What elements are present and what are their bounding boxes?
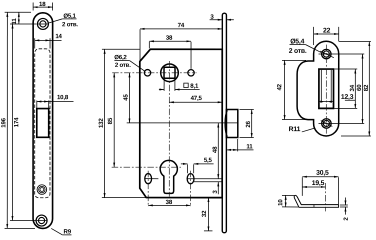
dim 18 — [32, 2, 34, 10]
latch window — [37, 109, 49, 138]
svg-text:5,5: 5,5 — [204, 157, 213, 164]
dim 2 thickness — [340, 204, 348, 206]
dim 132 — [102, 48, 140, 50]
square follower 8.1 — [164, 67, 175, 78]
faceplate plate outline — [33, 13, 53, 229]
dim 11 latch — [237, 139, 239, 151]
svg-text:R9: R9 — [64, 229, 72, 236]
dim 38 bottom — [148, 204, 190, 206]
svg-text:18: 18 — [39, 1, 46, 8]
dim 47,5 — [169, 101, 222, 103]
screw hole bottom — [322, 119, 331, 128]
svg-text:10,8: 10,8 — [57, 94, 69, 101]
dim 38 top — [148, 42, 150, 49]
strike side profile — [294, 195, 338, 207]
svg-text:34: 34 — [349, 84, 356, 91]
dim 48 — [145, 178, 159, 180]
svg-text:42: 42 — [276, 83, 283, 90]
dim 10,8 — [37, 101, 49, 103]
dim 3 faceplate thickness — [210, 19, 223, 21]
svg-text:Ø6,2: Ø6,2 — [114, 54, 127, 61]
hole D6.2 left — [144, 70, 150, 76]
svg-text:196: 196 — [0, 117, 7, 127]
spindle hub — [161, 64, 179, 82]
ext line bottom hole axis — [318, 122, 364, 124]
svg-text:R11: R11 — [289, 126, 301, 133]
ext line top hole axis — [319, 53, 365, 55]
svg-text:14: 14 — [55, 33, 62, 40]
center line cylinder horizontal — [112, 166, 181, 168]
svg-text:2 отв.: 2 отв. — [115, 62, 131, 69]
dim 196 — [5, 11, 31, 13]
dim 34 — [335, 68, 358, 70]
svg-text:12,3: 12,3 — [341, 94, 354, 101]
center line left oval vertical — [147, 171, 149, 207]
svg-text:60: 60 — [356, 84, 363, 91]
inner stop line with arrows — [320, 70, 322, 102]
dim 174 — [10, 23, 36, 25]
svg-text:174: 174 — [13, 117, 20, 127]
lock body outline — [140, 49, 222, 197]
center line spindle horizontal — [112, 72, 196, 74]
svg-text:132: 132 — [98, 118, 105, 128]
svg-text:2 отв.: 2 отв. — [62, 21, 78, 28]
dim 32 — [204, 230, 212, 232]
svg-text:38: 38 — [166, 199, 173, 206]
center line — [325, 45, 327, 134]
latch bolt — [226, 110, 237, 138]
label R9 — [51, 228, 62, 234]
center line right oval vertical — [190, 171, 192, 207]
svg-text:47,5: 47,5 — [191, 95, 203, 102]
dim 11 — [18, 12, 20, 24]
oval screw slot right — [187, 174, 194, 184]
svg-text:74: 74 — [178, 22, 185, 29]
dim 30,5 — [337, 177, 339, 204]
svg-text:22: 22 — [323, 27, 331, 34]
dim 5,5 — [186, 164, 188, 173]
svg-text:48: 48 — [212, 146, 219, 153]
dim 10 lip height — [282, 194, 294, 196]
dim 85 — [113, 73, 115, 167]
svg-text:26: 26 — [245, 120, 252, 127]
svg-text:11: 11 — [11, 18, 18, 25]
seam tick — [313, 205, 315, 207]
oval screw slot left — [145, 174, 152, 184]
svg-text:82: 82 — [363, 84, 370, 91]
fixing hole — [37, 185, 47, 195]
dim 60 — [361, 54, 363, 123]
svg-text:85: 85 — [107, 117, 114, 124]
screw hole top — [322, 49, 331, 58]
latch window — [319, 69, 334, 108]
screw hole bottom — [36, 215, 47, 226]
dim 45 — [127, 122, 238, 124]
svg-text:32: 32 — [201, 210, 208, 217]
strike plate outline with lip — [297, 41, 339, 136]
euro cylinder hole — [160, 160, 177, 193]
dim square 8,1 — [163, 79, 165, 91]
profile center line — [324, 183, 326, 211]
faceplate edge-on bar — [222, 13, 226, 233]
svg-text:11: 11 — [246, 143, 253, 150]
dim 26 — [240, 109, 254, 111]
dim 19,5 — [302, 186, 325, 188]
hidden lock-body outline (dashed) — [35, 49, 50, 198]
svg-text:2 отв.: 2 отв. — [289, 48, 307, 55]
hole D6.2 right — [188, 70, 194, 76]
center line vertical axis spindle-cylinder — [168, 61, 170, 197]
svg-text:19,5: 19,5 — [312, 180, 325, 187]
dim 42 — [282, 59, 306, 61]
svg-text:45: 45 — [123, 94, 130, 101]
dim 3 lower — [194, 181, 222, 183]
dim 82 — [339, 40, 371, 42]
svg-text:30,5: 30,5 — [316, 170, 329, 177]
svg-text:8,1: 8,1 — [190, 83, 199, 90]
svg-text:10: 10 — [277, 199, 284, 206]
svg-text:38: 38 — [166, 35, 173, 42]
label R11 — [302, 128, 314, 132]
dim 22 — [313, 27, 315, 45]
dim 14 — [34, 38, 36, 48]
dim 74 — [139, 29, 141, 61]
screw hole top — [37, 18, 48, 29]
